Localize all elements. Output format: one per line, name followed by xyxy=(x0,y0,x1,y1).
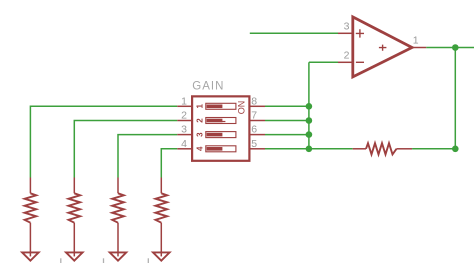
svg-text:ON: ON xyxy=(236,101,246,114)
op-amp pin 2 stub xyxy=(338,61,353,63)
switch row 2 slider xyxy=(207,119,223,123)
origin mark GND2 xyxy=(60,258,62,263)
wire switch pin 1 to R1 xyxy=(30,106,177,177)
switch pin 2 stub xyxy=(177,120,191,122)
svg-text:1: 1 xyxy=(181,95,187,107)
resistor R4 zigzag xyxy=(156,193,168,222)
svg-text:3: 3 xyxy=(181,124,187,136)
svg-text:6: 6 xyxy=(251,124,257,136)
wire switch pin 5 to bus and feedback resistor xyxy=(265,148,353,150)
switch row 4 slider xyxy=(207,147,223,151)
svg-text:7: 7 xyxy=(251,110,257,122)
resistor R3 top lead xyxy=(117,178,119,194)
junction on bus at pin 6 xyxy=(306,131,313,138)
op-amp center plus xyxy=(379,45,387,51)
wire switch pin 7 to bus xyxy=(265,120,309,122)
wire switch pin 8 to bus xyxy=(265,105,309,107)
wire switch pin 6 to bus xyxy=(265,134,309,136)
switch pin 8 stub xyxy=(251,105,266,107)
switch pin 1 stub xyxy=(177,105,191,107)
switch pin 6 stub xyxy=(251,134,266,136)
resistor R2 top lead xyxy=(73,178,75,194)
wire switch pin 3 to R3 xyxy=(118,135,177,178)
switch row 2 slider tick xyxy=(222,121,226,122)
wire op-amp output to right edge xyxy=(426,47,474,49)
svg-text:4: 4 xyxy=(195,146,204,151)
resistor R3 zigzag xyxy=(112,193,124,222)
junction on bus at pin 5 xyxy=(306,146,313,153)
wire switch pin 2 to R2 xyxy=(74,121,177,178)
svg-text:4: 4 xyxy=(181,138,187,150)
svg-text:3: 3 xyxy=(344,20,350,32)
ground GND2 xyxy=(66,252,83,260)
switch row 4 outline xyxy=(206,146,236,152)
svg-text:2: 2 xyxy=(344,49,350,61)
wire vertical feedback to output xyxy=(454,48,456,149)
svg-text:1: 1 xyxy=(413,35,419,47)
resistor R4 bottom lead xyxy=(160,223,162,257)
resistor R1 bottom lead xyxy=(29,223,31,257)
switch pin 4 stub xyxy=(177,148,191,150)
wire vertical bus x=309 xyxy=(308,62,310,149)
ground GND3 xyxy=(110,252,127,260)
op-amp pin 3 stub xyxy=(338,32,353,34)
switch row 1 outline xyxy=(206,103,236,109)
junction on bus at pin 7 xyxy=(306,117,313,124)
resistor R3 bottom lead xyxy=(117,223,119,257)
ground GND4 xyxy=(153,252,170,260)
op-amp minus sign at pin 2 xyxy=(356,61,364,63)
junction on bus at pin 8 xyxy=(306,103,313,110)
switch row 3 outline xyxy=(206,132,236,138)
svg-text:3: 3 xyxy=(195,132,204,137)
ground GND1 xyxy=(22,252,39,260)
wire switch pin 4 to R4 xyxy=(161,149,177,178)
switch pin 5 stub xyxy=(251,148,266,150)
feedback resistor R5 right lead xyxy=(397,148,413,150)
svg-text:1: 1 xyxy=(195,104,204,109)
switch row 3 slider xyxy=(207,133,223,137)
svg-text:GAIN: GAIN xyxy=(192,81,224,93)
junction at feedback corner xyxy=(452,146,459,153)
dip switch S1 body xyxy=(192,96,249,160)
wire net IN+ to op-amp pin 3 xyxy=(250,32,338,34)
feedback resistor R5 zigzag xyxy=(366,143,397,154)
op-amp U1 triangle xyxy=(353,17,412,77)
wire net from bus corner to op-amp pin 2 xyxy=(309,61,338,63)
switch pin 3 stub xyxy=(177,134,191,136)
svg-text:2: 2 xyxy=(181,110,187,122)
origin mark GND4 xyxy=(147,258,149,263)
resistor R2 bottom lead xyxy=(73,223,75,257)
junction at op-amp output xyxy=(452,44,459,51)
switch row 2 outline xyxy=(206,118,236,124)
resistor R4 top lead xyxy=(160,178,162,194)
resistor R2 zigzag xyxy=(69,193,81,222)
feedback resistor R5 left lead xyxy=(353,148,366,150)
switch row 1 slider xyxy=(207,105,223,109)
svg-text:2: 2 xyxy=(195,118,204,123)
resistor R1 zigzag xyxy=(25,193,37,222)
op-amp plus sign at pin 3 xyxy=(356,29,364,37)
wire feedback resistor to output node xyxy=(412,148,455,150)
resistor R1 top lead xyxy=(29,178,31,194)
svg-text:5: 5 xyxy=(251,138,257,150)
switch pin 7 stub xyxy=(251,120,266,122)
svg-text:8: 8 xyxy=(251,95,257,107)
op-amp pin 1 output stub xyxy=(412,47,426,49)
origin mark GND3 xyxy=(103,258,105,263)
